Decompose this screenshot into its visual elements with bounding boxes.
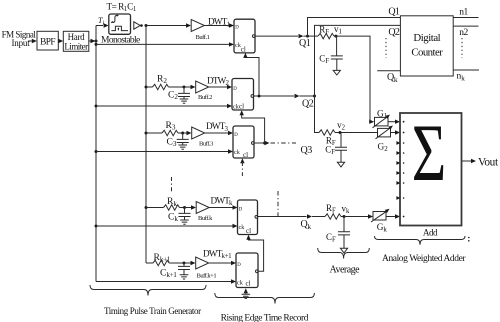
wire n1 [453, 7, 478, 17]
ground FFk+1 cl [242, 288, 251, 298]
label Qk [301, 219, 312, 231]
wire Gk to adder [386, 214, 405, 218]
svg-text:RF: RF [326, 203, 336, 215]
dots right of adder brace [468, 237, 470, 242]
svg-text:RF: RF [319, 24, 329, 36]
svg-text:T= R1C1: T= R1C1 [107, 2, 136, 13]
svg-text:R3: R3 [166, 120, 176, 132]
svg-text:D: D [235, 26, 239, 31]
svg-text:Q2: Q2 [302, 98, 314, 109]
ground Ck [180, 217, 189, 225]
resistor RF2 [319, 130, 340, 147]
block analog weighted adder [400, 113, 462, 226]
wire C3 to Buff3 [183, 131, 192, 135]
wire FF2 Q feedback to FF1 cl [243, 53, 259, 96]
capacitor Ck+1 [160, 263, 190, 279]
svg-text:Vout: Vout [478, 156, 499, 168]
label Rising Edge Time Record [221, 313, 309, 322]
resistor Rk+1 [146, 252, 184, 266]
capacitor CFk [326, 217, 350, 244]
node ck branch FF3 [95, 150, 98, 153]
wire input to BPF [28, 39, 37, 43]
svg-text:Ck+1: Ck+1 [160, 267, 177, 279]
wire Ck to Buffk [185, 205, 197, 209]
flip-flop FFk+1 [236, 253, 258, 288]
node vk [342, 204, 351, 219]
svg-text:Σ: Σ [412, 107, 447, 198]
node ck branch FF1 [95, 43, 98, 46]
svg-text:Q1: Q1 [299, 38, 311, 49]
wire vk to Gk [344, 214, 373, 218]
svg-text:nk: nk [457, 72, 466, 83]
label DWT1 [208, 17, 231, 29]
buffer Buff2 [196, 81, 212, 101]
sigma symbol [412, 107, 447, 198]
label Add [423, 227, 438, 237]
svg-text:D: D [233, 87, 237, 92]
svg-text:Rk+1: Rk+1 [154, 252, 171, 264]
label Timing Pulse Train Generator [104, 306, 201, 316]
svg-text:cl: cl [243, 151, 248, 159]
buffer Buffk [196, 202, 213, 223]
wire Buff2 to FF2 D [209, 85, 232, 89]
monostable pulse icon [111, 26, 128, 30]
ellipsis above Qk wire [277, 191, 279, 217]
svg-text:DWT1: DWT1 [208, 17, 231, 29]
svg-text:R2: R2 [157, 73, 167, 85]
svg-text:DTW2: DTW2 [207, 75, 230, 87]
node v1 [334, 24, 342, 38]
svg-text:DWTk: DWTk [211, 195, 234, 207]
wire ck to FFk [96, 224, 238, 228]
wire n2 [453, 26, 478, 38]
wire ck to FF2 [96, 104, 232, 108]
svg-text:BPF: BPF [40, 37, 55, 47]
node FF1 cl tap [258, 95, 261, 98]
timing bus vertical [145, 26, 147, 264]
wire Ck+1 to Buffk+1 [184, 261, 196, 265]
node monostable output [145, 24, 148, 27]
wire Q2 riser to counter [315, 25, 401, 96]
capacitor C3 [167, 133, 189, 148]
wire ck to FFk+1 [96, 279, 236, 283]
capacitor C2 [168, 87, 190, 101]
wire FF3 Q feedback to FF2 cl [240, 110, 265, 143]
resistor R3 [146, 120, 183, 136]
svg-text:Buff.k: Buff.k [198, 215, 213, 222]
svg-text:ck: ck [234, 149, 241, 156]
node ck branch FFk [95, 225, 98, 228]
resistor Rk [146, 196, 185, 210]
flip-flop FF2 [232, 79, 254, 111]
label tau i [98, 16, 104, 27]
label Q1 [299, 38, 311, 49]
svg-text:CF: CF [326, 232, 336, 244]
svg-text:Timing Pulse Train Generator: Timing Pulse Train Generator [104, 306, 201, 316]
node Ck [183, 206, 186, 209]
label Q2 counter [388, 27, 400, 38]
wire v1 to G1 [336, 36, 374, 124]
brace timing pulse train generator [90, 285, 206, 296]
ground CFk [340, 235, 347, 253]
brace analog weighted adder [375, 236, 466, 245]
ck bus vertical [95, 26, 97, 282]
node v2 [337, 120, 346, 134]
svg-text:Digital: Digital [413, 32, 440, 44]
buffer Buff3 [192, 127, 213, 148]
node limiter output [95, 40, 98, 43]
brace rising edge time record [215, 293, 315, 304]
gain Gk [371, 209, 390, 234]
svg-text:Analog Weighted Adder: Analog Weighted Adder [382, 254, 466, 264]
label DWTk [211, 195, 234, 207]
svg-text:Rising Edge Time Record: Rising Edge Time Record [221, 313, 309, 322]
svg-text:n2: n2 [459, 28, 468, 38]
svg-text:v2: v2 [337, 120, 346, 132]
brace average [318, 248, 370, 259]
wire FF3 Q to Q3 [254, 141, 270, 145]
svg-text:n1: n1 [459, 7, 468, 17]
svg-text:Ck: Ck [168, 211, 178, 223]
svg-text:cl: cl [239, 103, 244, 111]
monostable output buffer [134, 22, 143, 29]
node FF2 cl tap [263, 142, 266, 145]
svg-text:G2: G2 [378, 142, 389, 153]
svg-text:Ti: Ti [98, 16, 104, 27]
capacitor Ck [168, 208, 191, 224]
monostable box [109, 14, 131, 34]
svg-text:C2: C2 [168, 89, 178, 101]
monostable trigger icon [111, 15, 118, 23]
block Digital Counter [400, 16, 453, 76]
node Q1 [306, 35, 309, 38]
svg-text:CF: CF [319, 53, 329, 65]
svg-text:ck: ck [239, 224, 246, 231]
wire nk [453, 70, 479, 82]
wire BPF to Hard Limiter [58, 39, 63, 43]
wire Vout [462, 156, 499, 168]
node Q2 [313, 95, 316, 98]
wire Buffk+1 to FFk+1 D [209, 261, 236, 265]
svg-text:cl: cl [246, 280, 251, 288]
svg-text:Add: Add [423, 227, 438, 237]
capacitor CF2 [325, 133, 347, 156]
label DWTk+1 [203, 248, 232, 260]
label T=R1C1 [107, 2, 136, 13]
wire C2 to Buff2 [184, 85, 196, 89]
ground CF2 [337, 150, 344, 167]
wire Hard Limiter output to node [89, 39, 96, 43]
svg-text:Input: Input [12, 38, 31, 48]
ground C3 [178, 143, 187, 150]
block BPF [37, 31, 58, 50]
svg-text:G1: G1 [377, 109, 388, 120]
label Q1 counter [388, 6, 400, 17]
node timing branch Rk [145, 206, 148, 209]
svg-text:ck: ck [237, 279, 244, 286]
node Ck+1 [183, 262, 186, 265]
flip-flop FF1 [234, 19, 255, 53]
wire FFk Q to vk [258, 214, 326, 218]
svg-text:D: D [239, 207, 243, 212]
wire Q1 riser to counter [308, 18, 401, 37]
svg-text:Buff.k+1: Buff.k+1 [197, 273, 217, 280]
node ck branch FF2 [95, 105, 98, 108]
wire Qk counter stub [377, 70, 400, 72]
svg-text:Q1: Q1 [388, 6, 400, 17]
gain G1 [373, 109, 391, 128]
svg-text:Qk: Qk [387, 72, 398, 84]
svg-text:Buff.2: Buff.2 [198, 94, 212, 101]
label DTW2 [207, 75, 230, 87]
ground C2 [180, 97, 189, 104]
wire monostable to Buff1 [146, 23, 191, 27]
wire v2 to G2 [340, 132, 378, 134]
buffer Buffk+1 [196, 257, 217, 280]
svg-text:DWTk+1: DWTk+1 [203, 248, 232, 260]
svg-text:cl: cl [246, 227, 251, 235]
wire G2 to adder [391, 130, 405, 134]
svg-text:Buff.1: Buff.1 [196, 34, 210, 41]
node C2 [183, 86, 186, 89]
wire ck to FF1 [96, 42, 234, 46]
wire Buffk to FFk D [209, 205, 237, 209]
node timing branch R2 [145, 86, 148, 89]
wire FFk+1 Q feedback to FFk cl [246, 235, 263, 271]
ground Ck+1 [180, 270, 189, 280]
label Monostable [101, 36, 140, 46]
node C3 [181, 132, 184, 135]
svg-text:Average: Average [330, 265, 361, 276]
label Average [330, 265, 361, 276]
svg-text:Q2: Q2 [388, 27, 400, 38]
label Q3 [301, 145, 313, 156]
wire Buff3 to FF3 D [205, 131, 233, 135]
svg-text:D: D [237, 263, 241, 268]
block Hard Limiter [63, 31, 89, 51]
svg-text:Limiter: Limiter [64, 41, 88, 51]
svg-text:Counter: Counter [411, 47, 443, 59]
svg-text:cl: cl [241, 46, 246, 54]
label Analog Weighted Adder [382, 254, 466, 264]
resistor RF3 [325, 203, 344, 219]
FM Signal Input label [2, 30, 37, 49]
dashed wire Q3 continuation [271, 142, 297, 144]
ground CF1 [333, 59, 340, 75]
wire into monostable [96, 23, 109, 27]
resistor R2 [146, 73, 184, 89]
flip-flop FFk [238, 200, 258, 235]
adder input marks [396, 141, 404, 200]
svg-text:Buff.3: Buff.3 [199, 141, 213, 148]
ellipsis between stage 3 and k left [171, 177, 173, 193]
resistor RF1 [308, 24, 335, 39]
wire Buff1 to FF1 D [204, 23, 234, 27]
wire Q2 down to RF2 [315, 96, 320, 133]
gain G2 [376, 126, 394, 154]
dashed wire FF3 cl continuation [240, 158, 244, 176]
svg-text:vk: vk [342, 204, 351, 216]
wire G1 to adder [388, 120, 405, 124]
svg-text:Rk: Rk [167, 196, 177, 208]
capacitor CF1 [319, 36, 343, 65]
flip-flop FF3 [233, 126, 254, 159]
label DWT3 [206, 121, 229, 133]
dotted counter outputs [461, 38, 463, 58]
label Qk counter [387, 72, 398, 84]
wire FF1 Q to Q1 node [255, 34, 308, 38]
buffer Buff1 [191, 20, 209, 41]
svg-text:C3: C3 [167, 136, 177, 148]
node timing branch R3 [145, 132, 148, 135]
wire ck to FF3 [96, 149, 233, 153]
svg-text:D: D [234, 133, 238, 138]
label Q2 [302, 98, 314, 109]
wire FF2 Q to Q2 node [254, 94, 315, 98]
svg-text:Q3: Q3 [301, 145, 313, 156]
svg-text:Qk: Qk [301, 219, 312, 231]
dotted counter inputs [385, 38, 387, 58]
svg-text:DWT3: DWT3 [206, 121, 229, 133]
svg-text:Gk: Gk [377, 223, 388, 234]
